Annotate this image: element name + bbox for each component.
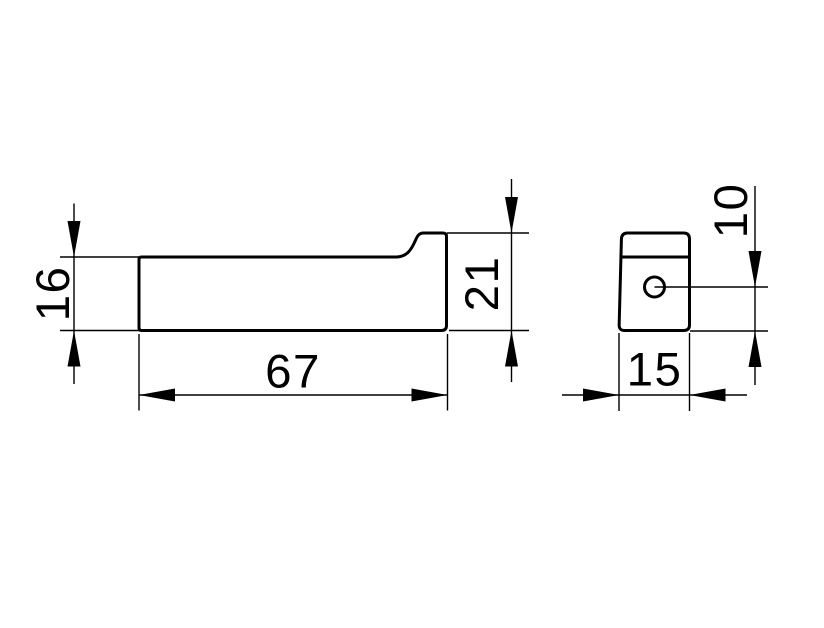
svg-text:67: 67 (265, 346, 321, 399)
svg-text:15: 15 (627, 344, 683, 397)
svg-text:21: 21 (456, 256, 509, 312)
svg-text:16: 16 (27, 266, 80, 322)
svg-text:10: 10 (705, 183, 758, 239)
